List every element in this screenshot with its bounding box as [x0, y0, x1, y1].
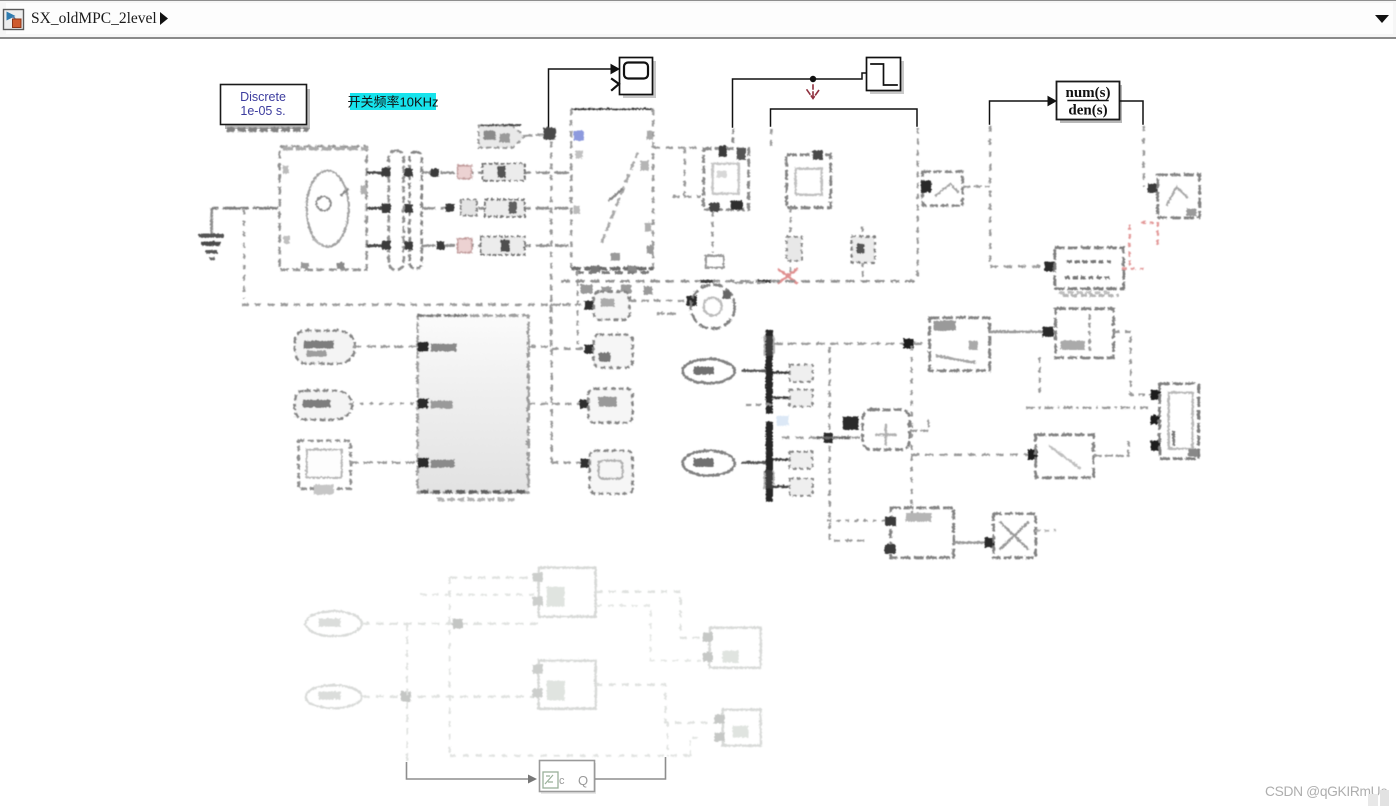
block A pll [929, 317, 989, 370]
wire oval2 to demux [741, 461, 765, 464]
controller out wires [528, 304, 592, 462]
vabc measurement tag block [478, 125, 524, 148]
label under controller [437, 497, 516, 500]
faint from tag F1 [305, 611, 361, 636]
wire transformer-converter A [421, 171, 571, 173]
wire vertical between converters [683, 147, 685, 196]
arrows into C [1150, 389, 1160, 450]
annotation arrow (dark red dashed) [807, 85, 819, 99]
svg-text:Discrete: Discrete [240, 90, 286, 104]
wire source-transformer C [366, 244, 388, 247]
wire from step to converter gate node [733, 73, 867, 127]
vertical from sum junction down [828, 346, 830, 540]
small dash stub [656, 312, 676, 315]
input block wm [294, 330, 355, 363]
wire B out to C [1113, 331, 1152, 394]
wire right vertical to bus [916, 127, 918, 280]
wire filter down [789, 207, 791, 278]
red dashed selection wires [1121, 221, 1157, 268]
wire to block D [911, 453, 1029, 455]
step block [867, 58, 905, 95]
vertical below B [1038, 357, 1040, 396]
wire tag to scope tap [524, 134, 543, 135]
faint cross wire [595, 605, 700, 660]
wire rectangle over converter2 [771, 109, 918, 126]
faint from tag F2 [305, 685, 361, 708]
converter 1 block [571, 109, 654, 273]
faint block F7 [714, 709, 760, 745]
model icon button [0, 1, 40, 37]
demux bus bar 2 [763, 421, 774, 501]
discrete transfer fcn block [1054, 247, 1123, 288]
demux tag 2 [772, 389, 812, 406]
wire demux to vertical y344 [773, 342, 928, 344]
svg-text:c: c [559, 775, 565, 787]
faint wire row y594 [420, 593, 537, 595]
wire down to bottom row [827, 519, 884, 521]
input block const [298, 440, 350, 494]
wire left vertical continuation [769, 128, 772, 150]
label under discrete tf [1062, 294, 1118, 297]
scope Scope1 [612, 58, 656, 99]
label above B [1058, 291, 1112, 294]
flip-flop block [540, 761, 597, 795]
vdc measure block [920, 171, 962, 205]
wire source-transformer A [366, 171, 388, 174]
wire ground to source [211, 206, 278, 209]
measurement on filter leg [786, 236, 801, 260]
wire bottom1 to bottom2 [953, 541, 992, 543]
svg-text:num(s): num(s) [1065, 85, 1110, 101]
junction left stub [816, 436, 850, 439]
wire oval1 to demux [741, 369, 765, 372]
wire node down to discrete tf [988, 125, 990, 266]
wire feedback vertical [242, 209, 244, 298]
junction block A input [903, 338, 913, 348]
bottom2 out stub [1035, 529, 1056, 531]
arrow into block D [1027, 449, 1037, 459]
wire vdc to node [962, 185, 989, 187]
wire demux region to sum y404 [745, 403, 772, 405]
flip-flop wire out [595, 757, 666, 779]
faint bottom dash row [449, 754, 690, 756]
transfer fcn output wire [1120, 101, 1143, 124]
watermark [1265, 784, 1388, 799]
wire sum out [909, 416, 928, 430]
R3 gain block [588, 388, 632, 422]
dashdot wire into C row2 [1025, 406, 1152, 408]
watermark logo corner [1356, 782, 1396, 808]
wire step node down continuation [731, 128, 733, 145]
wire ref to controller [349, 402, 417, 404]
converter2 lower stub [705, 255, 723, 267]
label above source [282, 146, 368, 150]
svg-text:1e-05 s.: 1e-05 s. [240, 104, 285, 118]
from tag oval 1 [682, 359, 734, 383]
wire converter1 to converter2 top [653, 146, 700, 148]
demux tag 3 [772, 451, 812, 468]
wire converter1 gate bottom [576, 270, 578, 344]
svg-text:开关频率10KHz: 开关频率10KHz [347, 95, 438, 110]
label powergui blurred [226, 127, 308, 132]
wire source-transformer B [366, 206, 388, 209]
wire D out [1093, 440, 1128, 455]
wire converter1 down to R-blocks [549, 141, 551, 347]
wire transformer-converter B [421, 206, 571, 208]
junction on step wire [810, 76, 816, 82]
junction blob at vertical [823, 432, 832, 442]
ground symbol [198, 208, 223, 258]
faint vertical wire x406 [406, 623, 408, 762]
transformer coil 1 [388, 150, 403, 269]
transfer fcn input wire [990, 97, 1057, 125]
current measure B [460, 199, 524, 216]
wire tf output down [1142, 125, 1144, 186]
current measure C [457, 236, 524, 254]
faint vertical wire x449 [448, 577, 450, 755]
wire transformer-converter C [421, 244, 571, 246]
arrow into out block [1147, 183, 1157, 192]
transformer coil 2 [409, 151, 421, 268]
flip-flop wire in [407, 762, 538, 784]
faint wire F4 to right [595, 684, 715, 722]
wire R1 to pulse circle [629, 299, 688, 301]
breadcrumb arrow [155, 1, 175, 37]
dc bus dark segments [700, 279, 770, 282]
faint wire top row [449, 576, 537, 578]
faint wire F1 out [361, 622, 537, 624]
breadcrumb bar [0, 0, 1396, 39]
wire wm to controller [352, 345, 417, 347]
transfer fcn block num(s)/den(s) [1057, 82, 1123, 124]
dropdown arrow [1370, 1, 1396, 37]
faint junction F2 [400, 691, 410, 701]
arrow into bottom2 [984, 537, 994, 547]
faint block F6 [702, 627, 760, 667]
input block ref [294, 390, 352, 419]
bottom block 2 [993, 513, 1035, 557]
wire stub row2 [833, 539, 866, 541]
filter block [786, 150, 830, 207]
converter1 port blobs [580, 284, 652, 294]
pulse circle block [690, 284, 734, 328]
wire to scope [549, 65, 620, 129]
demux tag 1 [772, 364, 812, 381]
annotation 开关频率10KHz [347, 93, 438, 110]
faint junction F1 [452, 618, 462, 628]
arrow into discrete tf [1044, 261, 1054, 271]
demux bus bar 1 [763, 329, 774, 413]
vertical node to block D [910, 345, 912, 520]
scope tap blob [543, 127, 555, 139]
block B abc-dq [1055, 308, 1113, 357]
current measure A [457, 163, 524, 180]
R1 gate block [593, 291, 629, 319]
out display block [1157, 174, 1199, 217]
sum block [842, 409, 909, 449]
R2 gate block [593, 334, 632, 367]
junction blobs on phase wires [381, 167, 470, 249]
three-phase source block [279, 146, 366, 269]
red cross marker [777, 268, 797, 283]
faint wire F2 out [361, 695, 537, 697]
MPC controller block [417, 315, 528, 492]
arrow into B [1042, 326, 1053, 336]
faint vertical right x667 [666, 722, 668, 756]
demux tag 4 [772, 478, 812, 495]
converter 2 block [703, 145, 748, 211]
bottom block 1 [884, 507, 953, 557]
wire converter2 down [711, 211, 713, 252]
wire into discrete tf [990, 265, 1047, 267]
selected port (blue) [573, 130, 583, 140]
junction at pulse circle [686, 295, 696, 305]
powergui block [221, 85, 311, 130]
wire A to B [989, 330, 1054, 333]
dc bus dashed wire [560, 279, 917, 282]
wire feedback horizontal y=304 [241, 303, 570, 305]
faint block F3 [532, 567, 595, 616]
wire converter1 to converter2 bottom [672, 195, 700, 197]
faint corner right [690, 737, 700, 755]
block D dq-abc [1035, 434, 1093, 477]
model name text [31, 10, 157, 28]
load component [851, 226, 874, 278]
arrows into R blocks [579, 300, 593, 467]
wire pulse to bus top [734, 281, 765, 283]
wire into sum y437 [781, 436, 861, 438]
from tag oval 2 [682, 450, 734, 475]
blue speck [776, 415, 788, 425]
faint wire F3 to right [595, 591, 702, 637]
svg-text:den(s): den(s) [1068, 103, 1107, 119]
R4 scope block [589, 450, 632, 493]
converter1 bottom port dashes [575, 271, 650, 274]
block C scope2 [1159, 383, 1198, 458]
wire const to controller [349, 461, 417, 463]
svg-text:Q: Q [578, 773, 588, 788]
faint block F4 [532, 660, 595, 708]
